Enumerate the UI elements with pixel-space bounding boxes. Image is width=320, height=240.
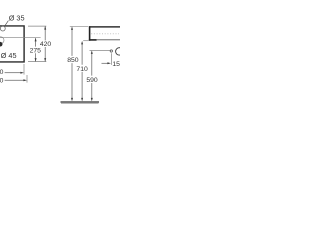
arrow 275 bottom [35,58,37,62]
extension line bottom (420/275) [28,61,46,63]
svg-text:0: 0 [0,78,4,85]
svg-text:Ø 35: Ø 35 [9,14,25,23]
drain outer circle (cut) [0,37,4,44]
dimension line 275 [35,38,37,61]
outlet pipe circle (cut at edge) [116,48,123,55]
arrow width dim 2 [23,79,27,81]
extension tick 710 [83,40,88,42]
floor line [61,101,100,103]
arrow width dim 1 [20,72,24,74]
arrow 710 bottom [81,98,83,102]
arrow 710 top [81,41,83,45]
dimension line 420 [44,26,46,61]
leader line drain outlet [90,50,111,52]
side view rim top edge [89,26,120,28]
washbasin top view outline [0,26,24,62]
outlet small circle [110,50,112,52]
extension line below outlet [110,53,112,65]
arrow 150 dimension [102,62,108,64]
svg-text:590: 590 [86,77,98,84]
floor shading [61,102,99,104]
side view bottom thin [97,39,120,41]
svg-text:0: 0 [0,69,4,76]
leader line Ø35 [5,21,9,27]
dimension line 710 [81,44,83,98]
arrow 850 bottom [71,98,73,102]
extension line below (width dim 2) [26,75,28,83]
dimension line 590 [91,54,93,99]
svg-text:420: 420 [40,41,52,48]
svg-text:710: 710 [76,66,88,73]
arrow 420 bottom [44,58,46,62]
width dimension line 1 (cut label 0) [5,72,21,74]
arrow 420 top [44,26,46,30]
hidden dashed line [91,33,119,35]
arrow 275 top [35,38,37,42]
drain hole filled [0,42,3,47]
extension line drain center (275) [0,37,41,39]
arrow 850 top [71,26,73,30]
side view front edge [89,26,91,40]
side view rim extension line [70,25,88,27]
dimension line 850 [71,30,73,98]
side view bottom thick [89,39,97,41]
svg-text:150: 150 [112,61,120,68]
extension line top (420) [28,25,46,27]
svg-text:Ø 45: Ø 45 [1,51,17,60]
svg-text:850: 850 [67,57,79,64]
width dimension line 2 (cut label 0) [5,79,24,81]
extension line below right edge (width dim 1) [23,64,25,75]
tap hole circle [0,26,5,31]
svg-text:275: 275 [30,47,42,54]
arrow 590 bottom [91,98,93,102]
arrow 590 top [91,50,93,54]
